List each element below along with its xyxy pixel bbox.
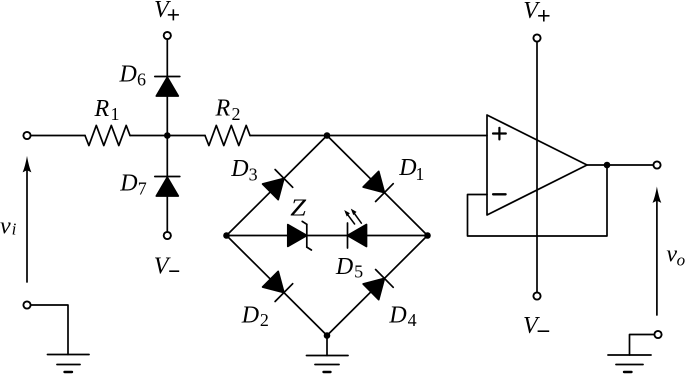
ground (center) <box>307 356 349 373</box>
diode D7 <box>155 176 180 178</box>
ground (right) <box>608 355 651 372</box>
op-amp + symbol <box>493 128 506 140</box>
wire node A to D7 <box>166 136 168 177</box>
vo arrow <box>653 187 662 316</box>
wire lower terminal to ground (right) <box>630 335 655 356</box>
svg-text:V: V <box>523 0 540 24</box>
label Z <box>290 196 307 222</box>
svg-text:V: V <box>154 0 171 23</box>
bridge top node <box>324 132 331 139</box>
svg-text:1: 1 <box>415 164 424 184</box>
svg-text:D: D <box>398 155 416 181</box>
V- terminal (left) <box>164 232 171 239</box>
svg-text:5: 5 <box>354 262 363 282</box>
svg-text:R: R <box>215 95 231 121</box>
svg-text:D: D <box>230 156 248 182</box>
diode D3 <box>263 170 293 200</box>
wire bridge arm bottom-right <box>327 236 428 336</box>
svg-text:V: V <box>154 253 171 279</box>
label D3 <box>230 156 257 185</box>
svg-text:i: i <box>12 220 17 239</box>
wire input to R1 <box>31 135 85 137</box>
wire V+ to D6 <box>166 39 168 76</box>
op-amp V- terminal <box>533 292 540 299</box>
wire D7 to V- terminal <box>166 196 168 232</box>
label D1 <box>398 155 424 184</box>
svg-text:3: 3 <box>249 165 258 185</box>
svg-text:v: v <box>0 213 11 239</box>
label R2 <box>215 95 241 123</box>
op-amp supply wire <box>536 42 538 293</box>
label D5 <box>335 254 363 282</box>
svg-text:4: 4 <box>408 310 417 330</box>
svg-text:1: 1 <box>111 104 120 124</box>
output terminal <box>653 161 660 168</box>
svg-text:V: V <box>523 313 540 339</box>
bridge right node <box>424 232 431 239</box>
resistor R1 <box>85 125 130 145</box>
diode D2 <box>263 271 293 301</box>
svg-text:D: D <box>119 62 137 88</box>
label vo <box>666 242 685 270</box>
svg-text:6: 6 <box>137 70 146 90</box>
label D6 <box>119 62 147 90</box>
bridge bottom node <box>324 332 331 339</box>
label V+ (top left) <box>154 0 179 23</box>
ground (left) <box>48 355 90 373</box>
output node dot <box>604 162 611 169</box>
label vi <box>0 213 17 239</box>
diode D4 <box>363 270 393 300</box>
svg-text:7: 7 <box>138 179 147 199</box>
wire bridge bottom to ground <box>326 336 328 356</box>
wire op-amp output <box>587 164 653 166</box>
wire lower terminal to ground (left) <box>31 305 68 355</box>
wire bridge arm top-right <box>327 136 428 236</box>
input lower terminal <box>23 301 30 308</box>
wire R1 to node A <box>130 135 205 137</box>
svg-text:D: D <box>335 254 353 280</box>
label V+ (op-amp) <box>523 0 549 24</box>
wire bridge arm top-left <box>227 136 328 236</box>
vi arrow <box>23 156 32 282</box>
zener diode Z <box>288 221 312 250</box>
svg-text:D: D <box>241 302 259 328</box>
diode D6 <box>155 76 180 78</box>
op-amp - symbol <box>493 193 506 195</box>
resistor R2 <box>205 125 250 145</box>
label D2 <box>241 302 269 330</box>
svg-text:D: D <box>119 171 137 197</box>
wire R2 to bridge top and op-amp + input <box>250 135 487 137</box>
svg-text:o: o <box>677 251 686 270</box>
input terminal (left) <box>23 132 30 139</box>
bridge middle wire <box>227 235 428 237</box>
LED D5 <box>344 209 366 248</box>
label D7 <box>119 171 147 199</box>
label R1 <box>94 96 120 124</box>
feedback wire <box>468 165 608 236</box>
diode D1 <box>363 171 393 201</box>
svg-text:2: 2 <box>260 310 269 330</box>
op-amp U1 <box>487 115 587 215</box>
svg-text:R: R <box>94 96 110 122</box>
label D4 <box>388 302 416 330</box>
label V- (left) <box>154 253 179 279</box>
output lower terminal <box>654 331 661 338</box>
op-amp V+ terminal <box>533 34 540 41</box>
svg-text:Z: Z <box>290 196 307 222</box>
wire bridge arm bottom-left <box>227 236 328 336</box>
V+ terminal (top left) <box>164 32 171 39</box>
svg-text:2: 2 <box>232 104 241 124</box>
label V- (op-amp) <box>523 313 549 339</box>
node A junction dot <box>164 132 171 139</box>
svg-text:D: D <box>388 302 406 328</box>
wire D6 to node A <box>166 96 168 136</box>
bridge left node <box>223 232 230 239</box>
